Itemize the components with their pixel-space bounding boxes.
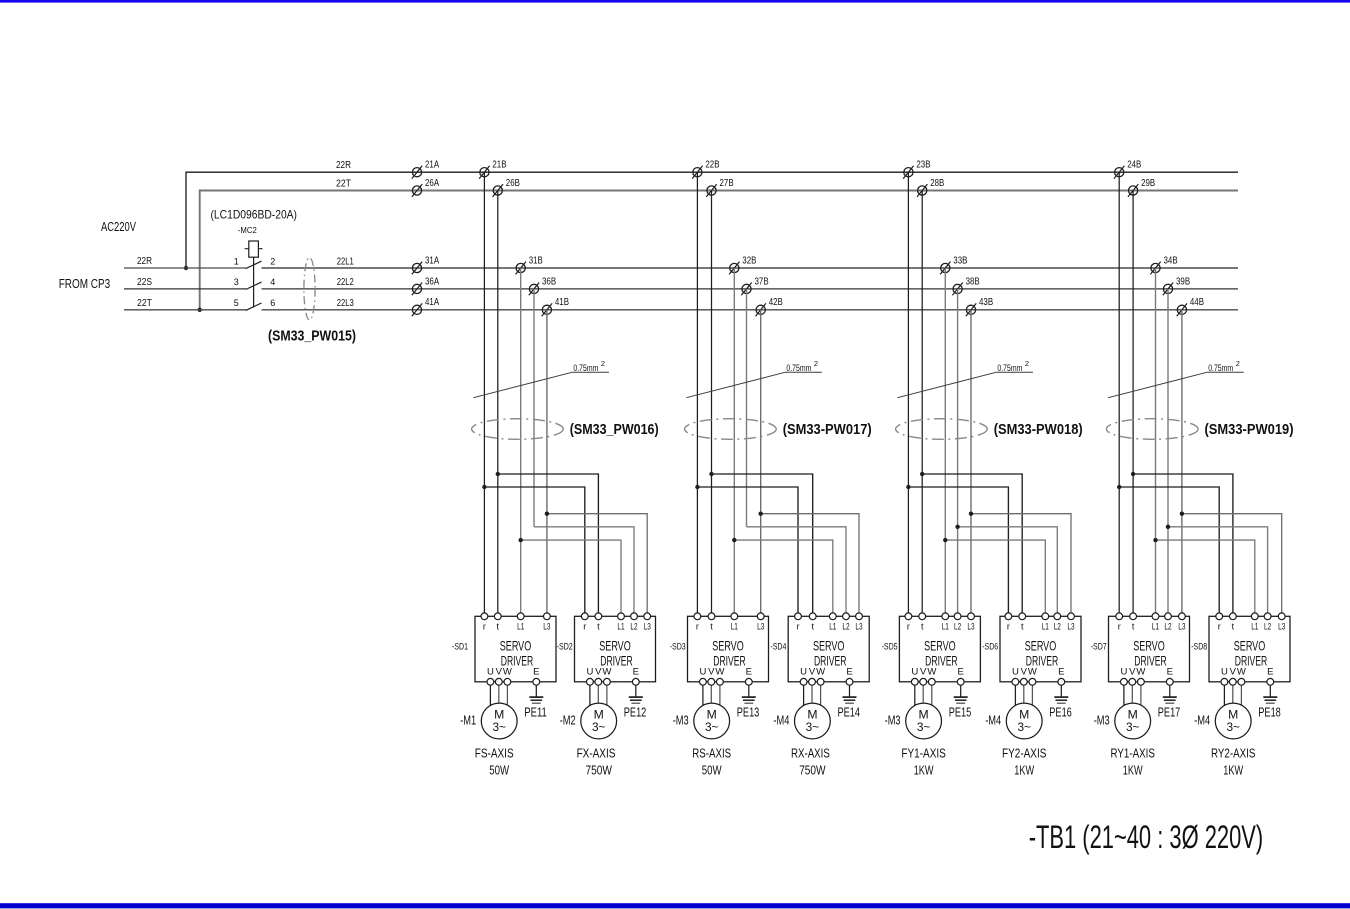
svg-text:21A: 21A [425, 160, 439, 171]
svg-text:3~: 3~ [806, 720, 820, 734]
motor -M3 (RY1-AXIS) [1115, 703, 1151, 739]
wire L3 drop group 4 [1181, 310, 1183, 617]
wire phase 22R incoming [124, 267, 246, 269]
wire t drop group 1 [497, 191, 499, 617]
terminal 41A [412, 297, 440, 316]
svg-text:-SD1: -SD1 [452, 642, 468, 653]
svg-text:(SM33_PW016): (SM33_PW016) [570, 422, 659, 438]
svg-text:36B: 36B [542, 276, 556, 287]
svg-text:PE12: PE12 [624, 705, 647, 720]
pin U of SD1 [487, 667, 494, 709]
svg-text:L3: L3 [543, 622, 550, 632]
node t junction group 4 [1131, 472, 1135, 476]
wire L1 branch group 2 [734, 540, 833, 616]
pin r of SD4 [795, 613, 802, 632]
node L1 junction group 1 [519, 538, 523, 542]
svg-text:W: W [503, 667, 512, 678]
pin E of SD1 [533, 667, 540, 697]
svg-text:L2: L2 [954, 622, 961, 632]
svg-text:0.75mm: 0.75mm [573, 363, 598, 374]
terminal 41B [542, 297, 570, 316]
wire r branch group 1 [484, 487, 584, 616]
node L2 junction group 3 [955, 525, 959, 529]
svg-text:r: r [797, 622, 800, 632]
svg-text:-M2: -M2 [560, 712, 576, 727]
svg-text:V: V [595, 667, 602, 678]
wire L2 branch group 2 [747, 527, 847, 617]
svg-text:RS-AXIS: RS-AXIS [692, 746, 731, 761]
pin U of SD5 [911, 667, 918, 709]
svg-text:r: r [1218, 622, 1221, 632]
pin L2 of SD6 [1054, 613, 1061, 632]
pin t of SD4 [809, 613, 816, 632]
terminal 28B [917, 178, 945, 197]
svg-text:FY2-AXIS: FY2-AXIS [1002, 746, 1047, 761]
svg-text:-M3: -M3 [885, 712, 901, 727]
svg-text:FY1-AXIS: FY1-AXIS [901, 746, 946, 761]
wire L3 branch group 4 [1182, 514, 1282, 617]
ground PE14 [843, 697, 857, 703]
servo driver SD7 title [1133, 638, 1167, 669]
motor -M1 (FS-AXIS) [481, 703, 517, 739]
pin L2 of SD8 [1264, 613, 1271, 632]
svg-text:24B: 24B [1127, 160, 1141, 171]
servo driver SD1 box [475, 616, 556, 682]
wire size label 0.75mm2 group 1 [473, 359, 609, 398]
pin r of SD2 [581, 613, 588, 632]
terminal 31B [516, 255, 544, 274]
wire L2 branch group 1 [534, 527, 634, 617]
svg-text:U: U [800, 667, 807, 678]
pin U of SD2 [586, 667, 593, 709]
contactor MC2 contact 5-6 [234, 298, 276, 310]
node L3 junction group 4 [1180, 512, 1184, 516]
servo driver SD3 title [712, 638, 746, 669]
svg-text:U: U [699, 667, 706, 678]
svg-text:3: 3 [234, 277, 239, 287]
svg-text:E: E [746, 667, 752, 678]
pin L1 of SD2 [617, 613, 624, 632]
wire L2 branch group 4 [1168, 527, 1268, 617]
wire L2 branch group 3 [958, 527, 1058, 617]
wire phase 22L3 line [262, 309, 1239, 311]
terminal 27B [706, 178, 734, 197]
node r junction group 4 [1117, 485, 1121, 489]
svg-text:L1: L1 [517, 622, 524, 632]
pin U of SD6 [1012, 667, 1019, 709]
pin V of SD3 [708, 667, 715, 709]
svg-text:27B: 27B [720, 178, 734, 189]
pin L3 of SD5 [967, 613, 974, 632]
terminal 42B [756, 297, 784, 316]
wire r drop group 1 [483, 172, 485, 616]
pin L1 of SD3 [731, 613, 738, 632]
svg-text:-M4: -M4 [773, 712, 789, 727]
node t junction group 2 [709, 472, 713, 476]
wire L3 branch group 1 [547, 514, 647, 617]
svg-text:2: 2 [1236, 359, 1240, 368]
svg-text:43B: 43B [979, 297, 993, 308]
servo driver SD4 title [813, 638, 847, 669]
svg-text:22L1: 22L1 [337, 256, 354, 267]
svg-text:22R: 22R [137, 256, 152, 267]
svg-text:PE18: PE18 [1258, 705, 1281, 720]
svg-text:L2: L2 [1054, 622, 1061, 632]
svg-text:0.75mm: 0.75mm [1208, 363, 1233, 374]
svg-text:L1: L1 [942, 622, 949, 632]
wire L3 drop group 2 [760, 310, 762, 617]
bottom blue border bar [0, 903, 1350, 908]
pin U of SD4 [800, 667, 807, 709]
svg-text:-M3: -M3 [1094, 712, 1110, 727]
pin E of SD2 [632, 667, 639, 697]
pin r of SD6 [1005, 613, 1012, 632]
svg-text:-SD3: -SD3 [670, 642, 686, 653]
svg-text:V: V [920, 667, 927, 678]
pin t of SD8 [1230, 613, 1237, 632]
pin W of SD1 [503, 667, 512, 709]
terminal 33B [940, 255, 968, 274]
wire r drop group 2 [696, 172, 698, 616]
motor -M3 (FY1-AXIS) [906, 703, 942, 739]
wire size label 0.75mm2 group 2 [686, 359, 822, 398]
terminal 21B [479, 160, 507, 179]
node L1 junction group 3 [943, 538, 947, 542]
svg-text:3~: 3~ [705, 720, 719, 734]
wire r drop group 3 [907, 172, 909, 616]
wire t branch group 2 [712, 474, 813, 616]
pin L3 of SD3 [757, 613, 764, 632]
pin L2 of SD7 [1164, 613, 1171, 632]
pin W of SD6 [1028, 667, 1037, 709]
svg-text:L1: L1 [1042, 622, 1049, 632]
svg-text:-M4: -M4 [1194, 712, 1210, 727]
servo driver SD6 title [1025, 638, 1059, 669]
svg-text:50W: 50W [489, 763, 509, 778]
pin U of SD3 [699, 667, 706, 709]
svg-text:-SD5: -SD5 [882, 642, 898, 653]
wire L1 drop group 4 [1155, 268, 1157, 616]
wire L1 branch group 1 [521, 540, 621, 616]
svg-text:PE13: PE13 [737, 705, 760, 720]
terminal 21A [412, 160, 440, 179]
pin E of SD5 [957, 667, 964, 697]
svg-text:RY2-AXIS: RY2-AXIS [1211, 746, 1256, 761]
svg-text:SERVO: SERVO [599, 638, 631, 654]
svg-text:-TB1 (21~40 : 3Ø 220V): -TB1 (21~40 : 3Ø 220V) [1029, 819, 1264, 855]
svg-text:3~: 3~ [1226, 720, 1240, 734]
top blue border bar [0, 0, 1350, 3]
svg-text:PE14: PE14 [838, 705, 861, 720]
svg-text:-M4: -M4 [985, 712, 1001, 727]
svg-text:L3: L3 [644, 622, 651, 632]
pin t of SD1 [494, 613, 501, 632]
svg-text:21B: 21B [492, 160, 506, 171]
wire size label 0.75mm2 group 3 [897, 359, 1033, 398]
svg-text:3~: 3~ [1017, 720, 1031, 734]
servo driver SD5 title [924, 638, 958, 669]
svg-text:42B: 42B [769, 297, 783, 308]
svg-text:L1: L1 [829, 622, 836, 632]
pin W of SD4 [816, 667, 825, 709]
svg-text:22R: 22R [336, 160, 351, 171]
svg-text:FX-AXIS: FX-AXIS [577, 746, 616, 761]
pin r of SD5 [905, 613, 912, 632]
pin E of SD8 [1267, 667, 1274, 697]
svg-text:31A: 31A [425, 255, 439, 266]
pin L3 of SD6 [1067, 613, 1074, 632]
wire L2 drop group 4 [1167, 289, 1169, 616]
wire L2 drop group 2 [746, 289, 748, 527]
svg-text:E: E [533, 667, 539, 678]
svg-text:L3: L3 [855, 622, 862, 632]
terminal 23B [903, 160, 931, 179]
servo driver SD2 box [575, 616, 656, 682]
pin t of SD3 [708, 613, 715, 632]
svg-text:L1: L1 [731, 622, 738, 632]
pin r of SD3 [694, 613, 701, 632]
svg-text:-SD4: -SD4 [770, 642, 786, 653]
servo driver SD5 box [899, 616, 980, 682]
cable marker SM33 PW017 ellipse [685, 419, 777, 440]
wire L3 drop group 3 [970, 310, 972, 617]
pin L1 of SD1 [517, 613, 524, 632]
wire phase 22S incoming [124, 288, 246, 290]
wire r branch group 3 [908, 487, 1008, 616]
contactor MC2 contact 1-2 [234, 256, 276, 268]
svg-text:1KW: 1KW [1123, 763, 1143, 778]
pin t of SD7 [1130, 613, 1137, 632]
pin L3 of SD1 [543, 613, 550, 632]
svg-text:2: 2 [601, 359, 605, 368]
svg-text:26A: 26A [425, 178, 439, 189]
svg-text:-M3: -M3 [673, 712, 689, 727]
svg-text:22T: 22T [137, 298, 152, 309]
svg-text:L1: L1 [1152, 622, 1159, 632]
terminal 29B [1128, 178, 1156, 197]
terminal 38B [952, 276, 980, 295]
svg-text:SERVO: SERVO [500, 638, 532, 654]
svg-text:SERVO: SERVO [813, 638, 845, 654]
servo driver SD3 box [688, 616, 769, 682]
pin t of SD2 [595, 613, 602, 632]
svg-text:FS-AXIS: FS-AXIS [475, 746, 514, 761]
svg-text:1KW: 1KW [914, 763, 934, 778]
svg-text:RX-AXIS: RX-AXIS [791, 746, 830, 761]
contactor MC2 contact 3-4 [234, 277, 276, 289]
pin L2 of SD5 [954, 613, 961, 632]
svg-text:50W: 50W [702, 763, 722, 778]
svg-text:U: U [586, 667, 593, 678]
svg-text:(LC1D096BD-20A): (LC1D096BD-20A) [211, 208, 298, 222]
pin L1 of SD7 [1152, 613, 1159, 632]
svg-text:-MC2: -MC2 [238, 225, 257, 235]
motor -M4 (RX-AXIS) [795, 703, 831, 739]
svg-text:PE16: PE16 [1049, 705, 1072, 720]
svg-text:3~: 3~ [917, 720, 931, 734]
svg-text:r: r [583, 622, 586, 632]
wire phase 22L2 line [262, 288, 1239, 290]
ground PE18 [1263, 697, 1277, 703]
svg-text:W: W [602, 667, 611, 678]
terminal 36B [529, 276, 557, 295]
svg-text:r: r [483, 622, 486, 632]
svg-text:L2: L2 [630, 622, 637, 632]
pin L3 of SD4 [855, 613, 862, 632]
svg-text:E: E [633, 667, 639, 678]
pin L2 of SD4 [842, 613, 849, 632]
svg-text:L3: L3 [1067, 622, 1074, 632]
svg-text:(SM33-PW017): (SM33-PW017) [783, 422, 872, 438]
svg-text:U: U [1221, 667, 1228, 678]
svg-text:22L3: 22L3 [337, 298, 354, 309]
svg-text:3~: 3~ [492, 720, 506, 734]
node L3 junction group 1 [545, 512, 549, 516]
svg-text:1: 1 [234, 256, 239, 266]
cable marker SM33 PW016 ellipse [472, 419, 564, 440]
node r junction group 2 [695, 485, 699, 489]
svg-text:V: V [1129, 667, 1136, 678]
svg-text:L3: L3 [757, 622, 764, 632]
svg-text:SERVO: SERVO [924, 638, 956, 654]
pin W of SD3 [715, 667, 724, 709]
svg-text:1KW: 1KW [1223, 763, 1243, 778]
svg-text:3~: 3~ [592, 720, 606, 734]
pin E of SD3 [745, 667, 752, 697]
svg-text:2: 2 [1025, 359, 1029, 368]
svg-text:750W: 750W [799, 763, 826, 778]
svg-text:0.75mm: 0.75mm [997, 363, 1022, 374]
motor -M4 (FY2-AXIS) [1006, 703, 1042, 739]
wire phase 22T incoming [124, 309, 246, 311]
terminal 36A [412, 276, 440, 295]
svg-text:SERVO: SERVO [1133, 638, 1165, 654]
node L2 junction group 4 [1166, 525, 1170, 529]
svg-text:E: E [846, 667, 852, 678]
svg-text:26B: 26B [506, 178, 520, 189]
motor -M3 (RS-AXIS) [694, 703, 730, 739]
svg-text:34B: 34B [1164, 255, 1178, 266]
pin L3 of SD7 [1178, 613, 1185, 632]
terminal 34B [1150, 255, 1178, 274]
svg-text:L3: L3 [967, 622, 974, 632]
wire L1 branch group 3 [945, 540, 1045, 616]
wire size label 0.75mm2 group 4 [1108, 359, 1244, 398]
svg-text:W: W [715, 667, 724, 678]
svg-text:PE11: PE11 [524, 705, 547, 720]
svg-text:RY1-AXIS: RY1-AXIS [1111, 746, 1156, 761]
svg-text:E: E [1267, 667, 1273, 678]
pin t of SD6 [1019, 613, 1026, 632]
wire t branch group 1 [498, 474, 599, 616]
svg-text:22S: 22S [137, 277, 152, 288]
svg-text:-SD8: -SD8 [1191, 642, 1207, 653]
ground PE16 [1054, 697, 1068, 703]
svg-text:U: U [1012, 667, 1019, 678]
svg-text:r: r [1007, 622, 1010, 632]
motor -M4 (RY2-AXIS) [1215, 703, 1251, 739]
cable marker SM33_PW015 ellipse [304, 258, 315, 320]
contactor MC2 coil [245, 241, 263, 257]
node L3 junction group 2 [759, 512, 763, 516]
servo driver SD1 title [500, 638, 534, 669]
svg-text:6: 6 [270, 298, 275, 308]
wire L2 drop group 1 [533, 289, 535, 527]
svg-text:-SD2: -SD2 [557, 642, 573, 653]
pin U of SD7 [1120, 667, 1127, 709]
pin U of SD8 [1221, 667, 1228, 709]
ground PE17 [1163, 697, 1177, 703]
node r junction group 1 [482, 485, 486, 489]
svg-text:PE15: PE15 [949, 705, 972, 720]
node L1 junction group 2 [732, 538, 736, 542]
svg-text:38B: 38B [966, 276, 980, 287]
svg-text:L1: L1 [617, 622, 624, 632]
servo driver SD7 box [1109, 616, 1190, 682]
svg-text:W: W [1136, 667, 1145, 678]
terminal 24B [1114, 160, 1142, 179]
pin r of SD8 [1216, 613, 1223, 632]
svg-text:U: U [911, 667, 918, 678]
svg-text:L2: L2 [1164, 622, 1171, 632]
terminal 26A [412, 178, 440, 197]
servo driver SD8 title [1234, 638, 1268, 669]
svg-text:W: W [1028, 667, 1037, 678]
svg-text:29B: 29B [1141, 178, 1155, 189]
svg-text:4: 4 [270, 277, 275, 287]
svg-text:L3: L3 [1178, 622, 1185, 632]
svg-text:SERVO: SERVO [1234, 638, 1266, 654]
ground PE12 [629, 697, 643, 703]
svg-text:22T: 22T [336, 179, 351, 190]
svg-text:SERVO: SERVO [1025, 638, 1057, 654]
wire t branch group 3 [922, 474, 1022, 616]
pin r of SD7 [1116, 613, 1123, 632]
pin W of SD5 [927, 667, 936, 709]
svg-text:750W: 750W [586, 763, 613, 778]
servo driver SD8 box [1209, 616, 1290, 682]
wire t drop group 2 [711, 191, 713, 617]
svg-text:(SM33_PW015): (SM33_PW015) [268, 327, 356, 344]
svg-text:5: 5 [234, 298, 239, 308]
svg-text:33B: 33B [953, 255, 967, 266]
cable marker SM33 PW019 ellipse [1106, 419, 1198, 440]
svg-text:41A: 41A [425, 297, 439, 308]
svg-text:W: W [927, 667, 936, 678]
svg-text:-SD7: -SD7 [1091, 642, 1107, 653]
svg-text:2: 2 [814, 359, 818, 368]
node t junction group 1 [496, 472, 500, 476]
wire L1 drop group 2 [733, 268, 735, 616]
node junction 22T tap [198, 308, 202, 312]
terminal 26B [493, 178, 521, 197]
wire t drop group 4 [1132, 191, 1134, 617]
svg-text:L2: L2 [1264, 622, 1271, 632]
svg-text:-M1: -M1 [460, 712, 476, 727]
svg-text:V: V [809, 667, 816, 678]
node r junction group 3 [906, 485, 910, 489]
pin E of SD7 [1166, 667, 1173, 697]
contactor MC2 linkage [253, 257, 255, 307]
pin r of SD1 [481, 613, 488, 632]
ground PE13 [742, 697, 756, 703]
svg-text:0.75mm: 0.75mm [786, 363, 811, 374]
svg-text:AC220V: AC220V [101, 219, 136, 234]
servo driver SD4 box [788, 616, 869, 682]
svg-text:22B: 22B [705, 160, 719, 171]
terminal 22B [692, 160, 720, 179]
node t junction group 3 [920, 472, 924, 476]
